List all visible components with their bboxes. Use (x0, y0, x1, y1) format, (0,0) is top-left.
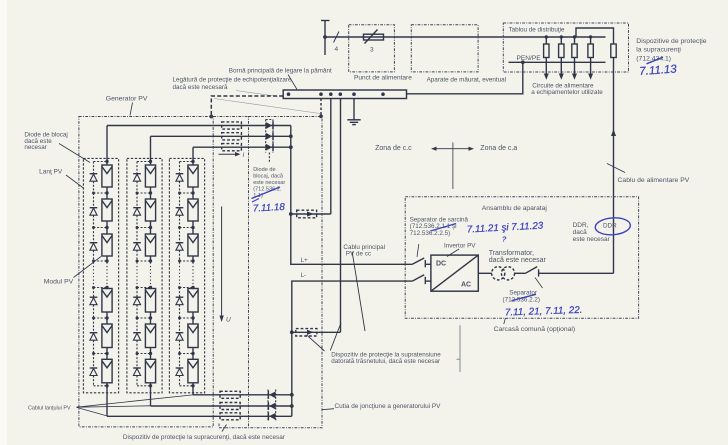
wire: bottom collector 3 (107, 415, 292, 417)
string overcurrent device (dashed) top 2 (222, 133, 242, 140)
label+leader: Cutia de jonctiune a generatorului PV (322, 409, 334, 410)
margin bracket (459, 325, 461, 372)
string overcurrent device (dashed) bottom 3 (220, 413, 240, 420)
wire: string 2 tap links (dashed) (137, 162, 151, 386)
bypass diode 1.1 (90, 174, 98, 182)
svg-text:Dispozitiv de protecţie la sup: Dispozitiv de protecţie la supracurenţi,… (123, 434, 286, 441)
conductor-count slash, label 4 (334, 32, 340, 43)
wire: string 3 dotted continuation (192, 263, 194, 287)
bypass diode 2.5 (133, 333, 141, 341)
box: Tablou de distributie (503, 23, 628, 72)
node dots on - bus (290, 393, 294, 397)
bypass diode 2.3 (133, 243, 141, 251)
wire: negative DC bus (292, 281, 413, 416)
PV string 2 (Lant PV) (127, 136, 162, 406)
fuse F3 on feed line (364, 30, 384, 44)
PV string 3 (Lant PV) (169, 147, 204, 395)
wire: string 3 tap links (dashed) (180, 162, 194, 386)
svg-text:Aparate de măurat, eventual: Aparate de măurat, eventual (427, 77, 506, 84)
blocking diode bottom 1 (268, 391, 275, 399)
string 2 enclosure box (127, 158, 162, 392)
wire: AC supply cable from PV (vertical) (613, 58, 615, 274)
node: bus dots on distribution bus (545, 35, 548, 38)
wire: string 1 dotted continuation (106, 263, 108, 287)
svg-text:Invertor PV: Invertor PV (444, 243, 476, 250)
supply network terminal (antenna bar) (321, 21, 330, 56)
wire: top collector 3 (193, 146, 291, 148)
label+leader: Separator (712.536.2.2) (535, 278, 543, 289)
wire: supply feed line to distribution board bus (325, 36, 606, 38)
junction dots string 1 (105, 160, 108, 163)
wire: string 1 series chain (106, 162, 108, 386)
svg-text:(712.536.2.2): (712.536.2.2) (503, 296, 540, 303)
bypass diode 3.5 (176, 333, 184, 341)
string overcurrent device (dashed) bottom 2 (220, 403, 240, 410)
svg-text:712.536.2.2.5): 712.536.2.2.5) (410, 230, 451, 237)
switch: DC disconnector pole L- (412, 275, 431, 284)
node: feed tap dot (323, 35, 327, 39)
svg-text:Cablu de alimentare PV: Cablu de alimentare PV (618, 177, 690, 184)
node: junction box frame dot (319, 114, 323, 118)
switch: DC disconnector pole L+ (412, 258, 431, 267)
svg-text:Legătură de protecţie de echip: Legătură de protecţie de echipotenţializ… (173, 76, 293, 83)
bypass diode 1.6 (90, 368, 98, 376)
PV module 3.3 (188, 234, 198, 256)
wire: positive DC bus (291, 126, 413, 265)
svg-text:4: 4 (335, 46, 339, 53)
svg-text:PV de cc: PV de cc (346, 251, 371, 258)
blocking diode top 1 (266, 122, 273, 130)
PV module 2.4 (145, 289, 155, 313)
svg-text:I: I (243, 152, 245, 159)
box: Generator PV (dash-dot) (79, 117, 213, 427)
svg-text:Cablul lanţului PV: Cablul lanţului PV (28, 405, 71, 411)
node: bonding junction dot (209, 115, 213, 119)
svg-text:Zona de c.a: Zona de c.a (480, 145, 517, 152)
svg-text:dacă: dacă (573, 229, 587, 236)
svg-text:AC: AC (461, 282, 471, 289)
wire: string 2 negative riser (150, 386, 152, 406)
PV module 3.2 (188, 199, 198, 221)
handwriting: blue oval around DDR (595, 217, 631, 236)
svg-text:L-: L- (301, 272, 307, 279)
functional earthing fuse link - (dashed) (292, 99, 341, 337)
PV module 1.1 (102, 165, 112, 187)
svg-text:7.11.18: 7.11.18 (253, 202, 286, 215)
blocking diode group bottom (dashed enclosure) (268, 390, 276, 422)
svg-text:dacă este necesar: dacă este necesar (489, 257, 547, 264)
junction dots string 2 (149, 160, 152, 163)
bypass diode 2.4 (133, 297, 141, 305)
svg-text:este necesar: este necesar (573, 236, 611, 243)
zone divider line (452, 142, 454, 189)
svg-text:DC: DC (436, 260, 446, 267)
svg-text:DDR: DDR (603, 222, 617, 229)
handwriting: strike + 7.11.21 si 7.11.23 (431, 224, 457, 232)
PV module 1.2 (102, 199, 112, 221)
string overcurrent device (dashed) top 3 (222, 144, 242, 151)
blocking diode group top (dashed enclosure) (266, 120, 273, 163)
voltage arrow U (221, 207, 223, 318)
wire: PE link down to main earthing bar (407, 62, 523, 94)
wire: top collector 1 (107, 125, 291, 127)
PV module 2.5 (145, 324, 155, 348)
svg-text:datorată trăsnetului, dacă es: datorată trăsnetului, dacă este necesar (331, 358, 440, 365)
wire: string 1 tap links (dashed) (94, 162, 108, 386)
svg-text:Diode de: Diode de (253, 167, 275, 173)
functional earthing fuse link + (dashed) (291, 99, 331, 218)
svg-text:Cutia de joncţiune a generator: Cutia de joncţiune a generatorului PV (335, 403, 442, 410)
svg-text:Generator PV: Generator PV (106, 96, 148, 103)
svg-text:Tablou de distribuţie: Tablou de distribuţie (509, 27, 566, 34)
fuse F5: PV supply cable fuse (611, 44, 616, 58)
svg-text:a echipamentelor utilizate: a echipamentelor utilizate (531, 89, 603, 96)
svg-text:3: 3 (370, 47, 374, 54)
bypass diode 2.1 (133, 174, 141, 182)
earth electrode conductor (353, 99, 355, 120)
bypass diode 1.3 (90, 243, 98, 251)
svg-text:este necesar: este necesar (253, 180, 285, 186)
blocking diode bottom 3 (268, 412, 275, 420)
node dots on earthing bar (287, 92, 291, 96)
wire: string 1 positive riser (106, 126, 108, 162)
svg-text:Modul PV: Modul PV (44, 279, 74, 286)
string 3 enclosure box (169, 158, 204, 392)
blocking diode top 3 (266, 143, 273, 151)
PV module 1.3 (102, 234, 112, 256)
svg-text:Dispozitive de protecţie: Dispozitive de protecţie (636, 38, 706, 45)
svg-text:la supracurenţi: la supracurenţi (636, 47, 681, 54)
wire: inverter AC output (478, 272, 492, 274)
bypass diode 3.2 (176, 208, 184, 216)
bypass diode 1.2 (90, 208, 98, 216)
svg-text:Ansamblu de aparataj: Ansamblu de aparataj (482, 205, 548, 212)
svg-text:U: U (226, 317, 231, 324)
PV module 2.2 (145, 199, 155, 221)
ground symbol (347, 120, 360, 125)
node dots on + bus (289, 134, 293, 138)
bypass diode 3.3 (176, 243, 184, 251)
label+leader: Carcasa comuna (optional) (504, 318, 506, 324)
PV module 3.1 (188, 165, 198, 187)
wire: dashed link bar to junction box frame (320, 99, 322, 117)
PV string 1 (Lant PV) (83, 126, 118, 417)
svg-text:blocaj, dacă: blocaj, dacă (253, 174, 284, 180)
svg-text:DDR,: DDR, (573, 222, 589, 229)
arrowhead up on AC cable (611, 129, 616, 136)
transformer (two circles) (492, 267, 505, 280)
bypass diode 3.1 (176, 174, 184, 182)
wire: bottom collector 2 (151, 405, 292, 407)
PV module 2.1 (145, 165, 155, 187)
bypass diode 2.6 (133, 368, 141, 376)
box: Ansamblu de aparataj (dash-dot) (405, 197, 638, 318)
svg-text:Carcasă comună (opţional): Carcasă comună (opţional) (494, 326, 576, 333)
blocking diode bottom 2 (268, 402, 275, 410)
wire: riser to PV supply fuse (576, 28, 614, 44)
PV module 1.4 (102, 289, 112, 313)
wire: string 2 dotted continuation (150, 263, 152, 287)
leader lines (thin) (236, 91, 278, 97)
svg-text:Punct de alimentare: Punct de alimentare (354, 75, 412, 82)
bypass diode 1.4 (90, 297, 98, 305)
handwriting: strike + 7.11.13 (647, 57, 664, 64)
PV module 1.6 (102, 359, 112, 383)
svg-text:necesar: necesar (24, 144, 46, 151)
bypass diode 1.5 (90, 333, 98, 341)
svg-text:L+: L+ (301, 257, 309, 264)
bypass diode 2.2 (133, 208, 141, 216)
main earthing terminal bar (283, 90, 406, 99)
svg-text:PEN/PE: PEN/PE (517, 55, 542, 62)
wire: string 3 bypass chain (dashed) (179, 162, 181, 386)
PV module 2.3 (145, 234, 155, 256)
box: Aparate de masurat (411, 25, 478, 72)
wire: string 1 bypass chain (dashed) (93, 162, 95, 386)
bypass diode 3.6 (176, 368, 184, 376)
label+leader: Dispozitiv de protectie la supracurenti (bottom) (222, 425, 227, 432)
switch: AC separator (525, 267, 613, 277)
junction dots string 3 (191, 160, 194, 163)
blocking diode top 2 (266, 132, 273, 140)
PV module 2.6 (145, 359, 155, 383)
box: Cutia de jonctiune (dash-dot) (249, 117, 323, 428)
wire: string 3 series chain (192, 162, 194, 386)
wire: string 3 positive riser (192, 147, 194, 161)
svg-text:Transformator,: Transformator, (489, 250, 534, 257)
label+leader: Cablu de alimentare PV (607, 164, 625, 173)
wire: string 2 bypass chain (dashed) (136, 162, 138, 386)
wire: string 2 positive riser (150, 136, 152, 161)
PV module 1.5 (102, 324, 112, 348)
bypass diode 3.4 (176, 297, 184, 305)
string 1 enclosure box (83, 158, 118, 392)
string overcurrent device (dashed) bottom 1 (220, 391, 240, 398)
fuse group: 4 outgoing circuit fuses with arrows (544, 37, 594, 75)
op: PV inverter box (431, 255, 478, 291)
box: Punct de alimentare (349, 25, 395, 72)
PV module 3.5 (188, 324, 198, 348)
wire: bottom collector 1 (193, 394, 292, 396)
wire: string 2 series chain (150, 162, 152, 386)
svg-text:Lanţ PV: Lanţ PV (39, 169, 63, 176)
node: PE tap dot (521, 60, 525, 64)
string overcurrent device (dashed) top 1 (222, 122, 242, 129)
current arrow I (219, 153, 237, 155)
svg-text:dacă este necesară: dacă este necesară (173, 84, 228, 91)
wire: top collector 2 (151, 135, 291, 137)
PV module 3.6 (188, 359, 198, 383)
wire: equipotential bonding (dashed, optional) (211, 96, 283, 117)
wire: transformer to separator (514, 272, 525, 274)
svg-text:Zona de c.c: Zona de c.c (375, 145, 412, 152)
wire: string 1 negative riser (106, 386, 108, 417)
wire: string 3 negative riser (192, 386, 194, 395)
junction box top/bottom edge extensions (213, 116, 248, 118)
PV module 3.4 (188, 289, 198, 313)
svg-text:Bornă principală de legare la: Bornă principală de legare la pământ (229, 67, 332, 74)
